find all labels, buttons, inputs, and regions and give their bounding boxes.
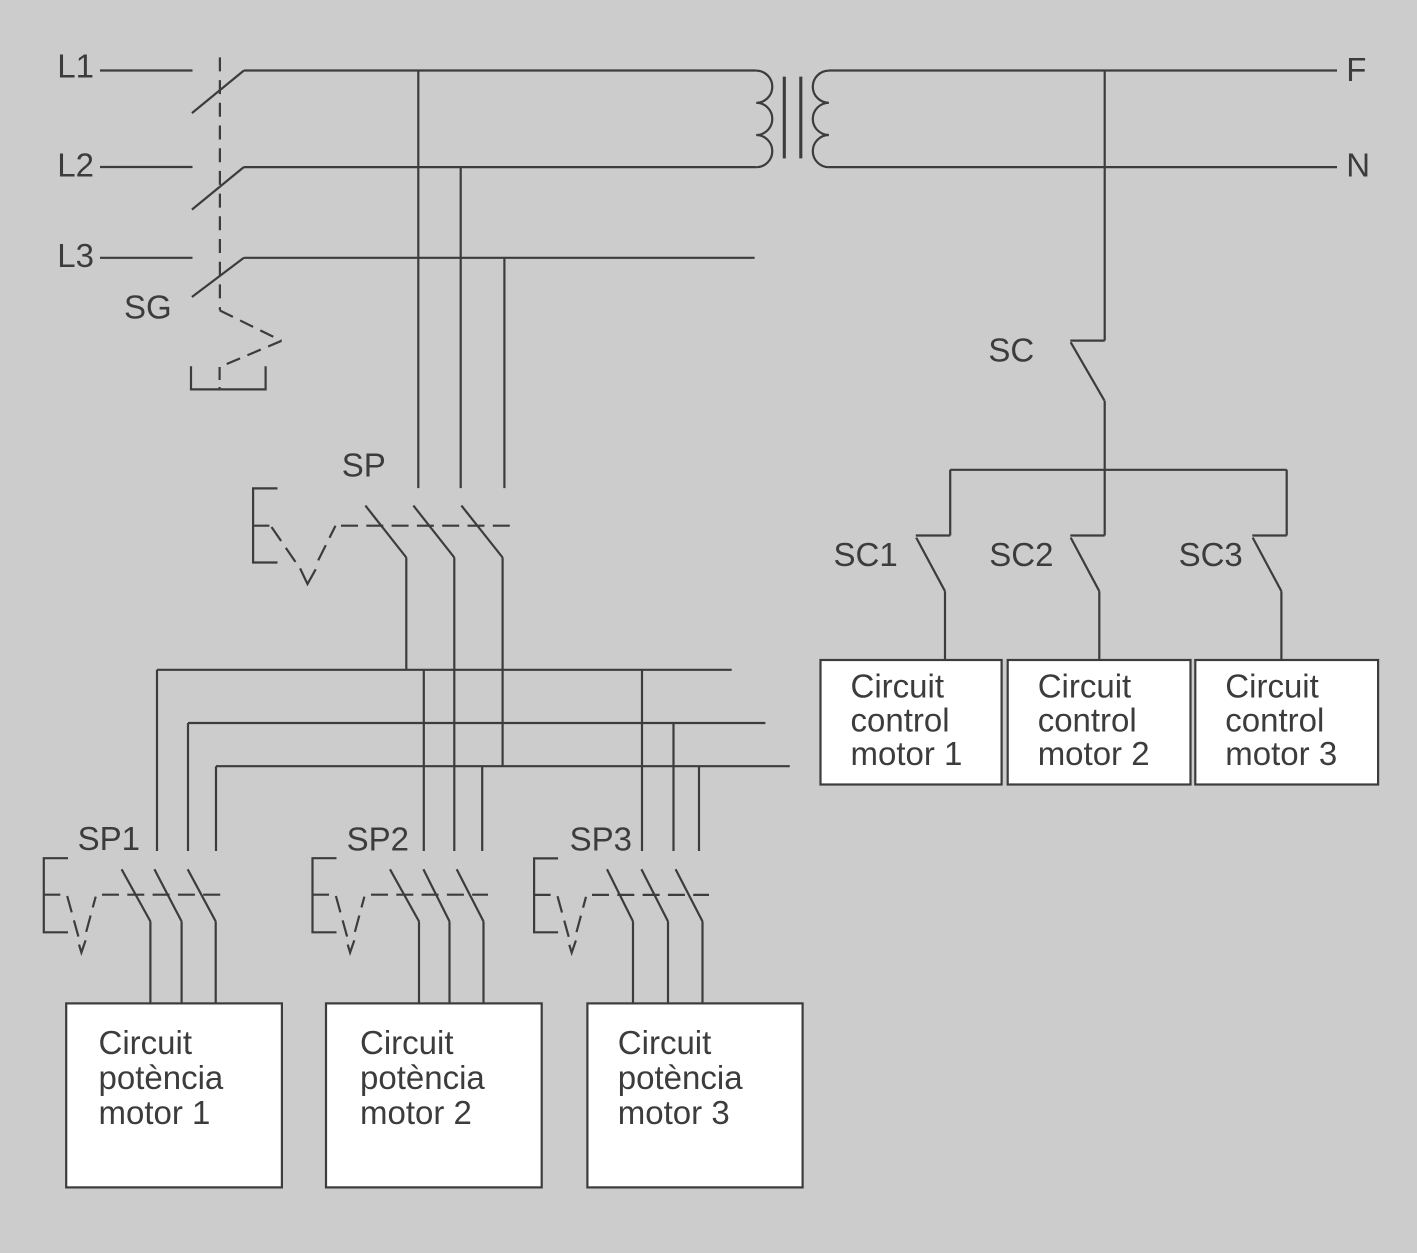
breaker SP2 trip dashed down-diagonal [336, 896, 347, 937]
svg-text:SC1: SC1 [834, 536, 898, 573]
contactor SC2 contact blade [1071, 538, 1100, 592]
breaker SP2 trip arrowhead [348, 940, 355, 952]
power box motor 2 [326, 1003, 542, 1187]
breaker SP3 pole 2 blade [641, 869, 668, 921]
control box motor 2 [1008, 660, 1191, 785]
wire bus 3 to SP2 pole 3 [481, 766, 483, 851]
control box motor 3 [1195, 660, 1378, 785]
wire SP pole 2 to bus 2 and SP2 pole 2 [453, 558, 455, 852]
breaker SP3 linkage dashed horizontal [592, 894, 709, 896]
breaker SP2 pole 1 blade [390, 869, 419, 921]
wire bus 1 to SP1 pole 1 [156, 670, 158, 851]
bus 3 phase L3 [216, 765, 790, 767]
wire SC3 to control box 3 [1280, 591, 1282, 661]
transformer T core [783, 77, 786, 159]
wire drop L2 to SP pole 2 [460, 167, 462, 488]
svg-text:SP2: SP2 [347, 820, 409, 857]
wire L2 to transformer primary bottom [244, 166, 756, 168]
breaker SP2 pole 2 blade [423, 869, 449, 921]
disconnector SG linkage zigzag [220, 311, 282, 341]
breaker SP linkage dashed horizontal [341, 525, 510, 527]
wire bus 3 to SP1 pole 3 [215, 766, 217, 851]
wire SC2 to control box 2 [1098, 591, 1100, 661]
svg-text:SC2: SC2 [989, 536, 1053, 573]
transformer T primary winding [756, 71, 772, 168]
wire bus 1 to SP2 pole 1 [423, 670, 425, 851]
wire SP1 pole 3 to motor box 1 [215, 921, 217, 1003]
contactor SC contact tick [1070, 340, 1104, 342]
breaker SP1 linkage dashed horizontal [102, 894, 221, 896]
wire L1 to transformer primary top [244, 69, 756, 71]
wire SP3 pole 3 to motor box 3 [701, 921, 703, 1003]
breaker SP2 trip dashed up-diagonal [355, 897, 365, 932]
breaker SP3 trip arrowhead [569, 941, 576, 953]
control box motor 1 [821, 660, 1002, 785]
wire control bus to SC1 [949, 470, 951, 536]
svg-text:SC3: SC3 [1179, 536, 1243, 573]
breaker SP1 trip arrowhead [79, 940, 86, 952]
breaker SP1 trip dashed up-diagonal [86, 897, 96, 932]
wire SP1 pole 1 to motor box 1 [149, 921, 151, 1003]
wire bus 3 to SP3 pole 3 [698, 766, 700, 851]
wire L1 incoming [100, 69, 193, 71]
svg-text:F: F [1346, 51, 1366, 88]
wire drop L3 to SP pole 3 [503, 258, 505, 488]
wire L2 incoming [100, 166, 193, 168]
breaker SP1 trip dashed down-diagonal [67, 896, 78, 937]
wire F line [829, 69, 1337, 71]
breaker SP pole 2 blade [413, 506, 454, 558]
breaker SP1 pole 2 blade [154, 869, 181, 921]
disconnector SG pole 3 blade [192, 258, 244, 297]
wire F line drop to SC [1104, 71, 1106, 341]
breaker SP1 release bracket [44, 858, 68, 932]
contactor SC1 contact blade [916, 538, 945, 592]
wire drop L1 to SP pole 1 [417, 71, 419, 489]
contactor SC3 contact tick [1252, 534, 1286, 536]
wire SP pole 1 to bus 1 [405, 558, 407, 670]
breaker SP2 linkage dashed horizontal [371, 894, 488, 896]
disconnector SG pole 1 blade [192, 71, 244, 114]
contactor SC2 contact tick [1070, 534, 1104, 536]
power box motor 1 [66, 1003, 282, 1187]
wire bus 1 to SP3 pole 1 [641, 670, 643, 851]
breaker SP3 pole 1 blade [607, 869, 633, 921]
wire L3 outgoing [244, 257, 755, 259]
power box motor 3 [587, 1003, 802, 1187]
disconnector SG actuator box [191, 366, 266, 389]
disconnector SG linkage dashed shaft [219, 57, 221, 310]
wire SP2 pole 3 to motor box 2 [482, 921, 484, 1003]
breaker SP pole 3 blade [461, 506, 502, 558]
contactor SC1 contact tick [916, 534, 950, 536]
bus 2 phase L2 [188, 722, 765, 724]
breaker SP release bracket [253, 488, 277, 562]
wire SP pole 3 to bus 3 [502, 558, 504, 767]
breaker SP3 release bracket [534, 858, 558, 932]
breaker SP trip linkage dashed down-diagonal [272, 527, 299, 566]
svg-text:SP: SP [342, 447, 386, 484]
breaker SP pole 1 blade [365, 506, 406, 558]
wire SP2 pole 1 to motor box 2 [418, 921, 420, 1003]
wire SP3 pole 2 to motor box 3 [667, 921, 669, 1003]
breaker SP2 release bracket [313, 858, 337, 932]
wire bus 2 to SP1 pole 2 [187, 723, 189, 851]
contactor SC3 contact blade [1253, 538, 1282, 592]
control bus [950, 469, 1286, 471]
svg-text:L1: L1 [57, 48, 94, 85]
wire SP2 pole 2 to motor box 2 [448, 921, 450, 1003]
breaker SP1 pole 3 blade [188, 869, 216, 921]
disconnector SG pole 2 blade [192, 167, 244, 210]
wire bus 2 to SP3 pole 2 [672, 723, 674, 851]
wire SP3 pole 1 to motor box 3 [632, 921, 634, 1003]
breaker SP trip linkage dashed up-diagonal [318, 526, 335, 561]
breaker SP3 pole 3 blade [676, 869, 703, 921]
contactor SC contact blade [1071, 342, 1105, 400]
breaker SP1 pole 1 blade [122, 869, 151, 921]
wire SC1 to control box 1 [944, 591, 946, 661]
svg-text:SG: SG [124, 289, 172, 326]
svg-text:L3: L3 [57, 237, 94, 274]
wire SP1 pole 2 to motor box 1 [181, 921, 183, 1003]
transformer T secondary winding [813, 71, 829, 168]
svg-text:L2: L2 [57, 146, 94, 183]
wire N line [829, 166, 1337, 168]
svg-text:SP3: SP3 [570, 821, 632, 858]
wire L3 incoming [100, 257, 193, 259]
breaker SP3 trip dashed up-diagonal [577, 897, 587, 932]
wire SC to control bus and SC2 [1104, 401, 1106, 536]
svg-text:SC: SC [988, 332, 1034, 369]
svg-text:SP1: SP1 [78, 820, 140, 857]
wire control bus to SC3 [1286, 470, 1288, 536]
breaker SP trip V [300, 568, 316, 584]
breaker SP2 pole 3 blade [457, 869, 484, 921]
svg-text:N: N [1346, 147, 1370, 184]
breaker SP3 trip dashed down-diagonal [558, 896, 569, 937]
bus 1 phase L1 [157, 669, 732, 671]
